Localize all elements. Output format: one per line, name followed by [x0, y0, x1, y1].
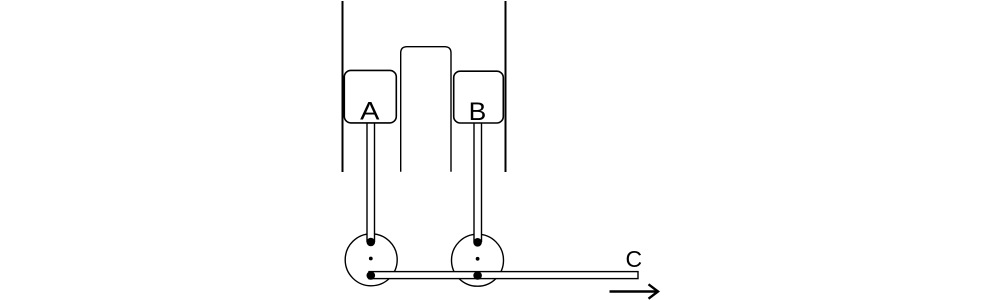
svg-text:A: A	[360, 96, 379, 125]
svg-text:B: B	[469, 99, 487, 126]
svg-text:C: C	[625, 246, 642, 272]
